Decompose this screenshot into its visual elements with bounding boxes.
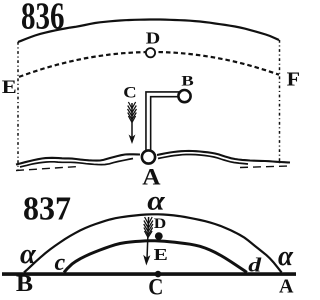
svg-text:D: D — [146, 29, 160, 48]
svg-text:C: C — [123, 84, 136, 102]
svg-text:837: 837 — [23, 191, 71, 228]
svg-text:C: C — [148, 274, 163, 300]
svg-text:d: d — [248, 254, 262, 275]
svg-text:c: c — [55, 250, 66, 276]
svg-text:α: α — [278, 240, 294, 272]
svg-text:B: B — [16, 271, 33, 296]
svg-text:F: F — [287, 67, 300, 90]
svg-text:D: D — [154, 216, 166, 232]
svg-text:B: B — [181, 72, 193, 89]
svg-text:836: 836 — [21, 0, 64, 37]
svg-text:E: E — [154, 246, 168, 265]
svg-text:A: A — [279, 276, 294, 298]
svg-text:α: α — [20, 239, 37, 270]
svg-text:E: E — [2, 76, 17, 97]
svg-text:α: α — [147, 187, 165, 216]
